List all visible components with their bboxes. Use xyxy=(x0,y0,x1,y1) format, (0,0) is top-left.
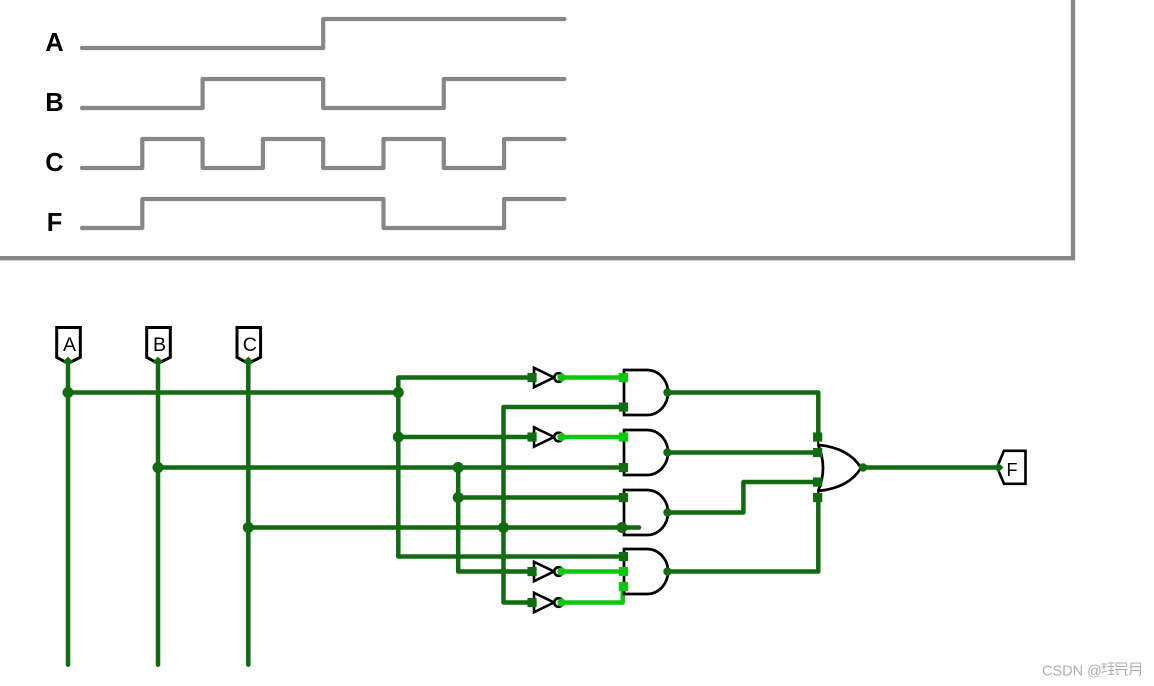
svg-text:B: B xyxy=(45,89,63,117)
svg-text:A: A xyxy=(63,334,76,356)
svg-text:CSDN @: CSDN @ xyxy=(1042,664,1102,680)
svg-text:C: C xyxy=(45,149,63,177)
svg-text:C: C xyxy=(243,334,257,356)
svg-text:F: F xyxy=(1007,460,1018,480)
svg-text:F: F xyxy=(47,209,63,237)
svg-text:A: A xyxy=(45,29,63,57)
svg-text:B: B xyxy=(153,334,166,356)
